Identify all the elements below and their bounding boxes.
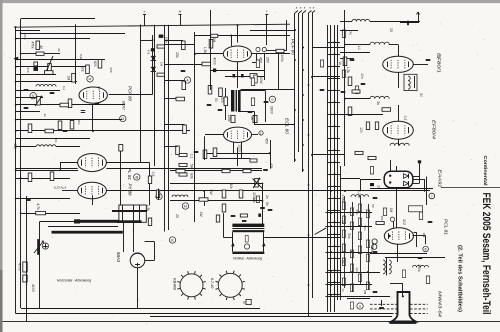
svg-text:5H: 5H	[190, 164, 194, 169]
svg-text:70: 70	[348, 31, 352, 35]
svg-text:0,25 ALA: 0,25 ALA	[54, 186, 67, 190]
svg-text:47k: 47k	[269, 163, 273, 169]
svg-text:100k: 100k	[371, 243, 375, 250]
svg-text:1n: 1n	[341, 288, 345, 292]
svg-text:PCF 80: PCF 80	[128, 86, 133, 101]
svg-text:50: 50	[214, 98, 218, 102]
svg-text:10n: 10n	[355, 267, 359, 272]
svg-text:EF80/4: EF80/4	[430, 120, 436, 139]
svg-text:30k: 30k	[229, 183, 233, 189]
svg-text:25V: 25V	[266, 57, 270, 64]
svg-text:5n: 5n	[265, 202, 269, 206]
svg-text:L1: L1	[357, 46, 361, 50]
svg-text:2n: 2n	[265, 195, 269, 199]
svg-text:4000: 4000	[213, 57, 217, 65]
svg-text:2n: 2n	[377, 185, 381, 189]
svg-text:1,5k: 1,5k	[203, 47, 207, 54]
svg-text:50n: 50n	[77, 119, 81, 124]
svg-text:Horizontal - Ablenkung: Horizontal - Ablenkung	[57, 279, 91, 283]
svg-text:1W: 1W	[199, 211, 203, 217]
svg-text:47k: 47k	[147, 50, 151, 55]
svg-text:100n: 100n	[23, 33, 27, 40]
svg-text:100: 100	[359, 127, 363, 133]
svg-text:ECL 80: ECL 80	[284, 118, 290, 134]
svg-text:Vertikal - Ablenkung: Vertikal - Ablenkung	[233, 256, 262, 260]
svg-text:8-7-40: 8-7-40	[210, 278, 214, 288]
svg-text:10n: 10n	[54, 137, 58, 142]
svg-text:25: 25	[389, 28, 393, 32]
svg-text:100k: 100k	[280, 54, 284, 62]
svg-text:9BA3: 9BA3	[116, 252, 121, 263]
svg-text:0,1: 0,1	[62, 86, 66, 91]
svg-text:4,7: 4,7	[97, 86, 101, 91]
svg-text:H: H	[184, 203, 187, 208]
svg-text:PCL 81: PCL 81	[442, 219, 448, 235]
svg-text:45V: 45V	[265, 138, 269, 145]
svg-text:B: B	[437, 54, 440, 59]
svg-text:PY 88: PY 88	[127, 184, 132, 196]
svg-text:280V: 280V	[270, 106, 274, 115]
svg-text:50n: 50n	[363, 225, 367, 230]
svg-text:1k: 1k	[43, 113, 47, 117]
svg-text:K: K	[171, 237, 174, 242]
svg-text:G: G	[243, 300, 246, 304]
svg-text:200k: 200k	[252, 192, 256, 200]
svg-text:U: U	[89, 76, 92, 81]
svg-text:1M: 1M	[160, 62, 164, 67]
svg-text:470k: 470k	[31, 41, 35, 49]
svg-text:D: D	[121, 116, 124, 121]
svg-text:PL 81: PL 81	[127, 168, 132, 180]
svg-text:B: B	[135, 174, 138, 179]
svg-text:(2. Teil des Schaltbildes): (2. Teil des Schaltbildes)	[456, 245, 462, 312]
svg-text:1M: 1M	[389, 208, 393, 213]
svg-text:MW43-64: MW43-64	[437, 291, 442, 318]
svg-text:300: 300	[220, 97, 224, 103]
svg-text:5,6k: 5,6k	[79, 54, 83, 60]
svg-text:25k: 25k	[175, 52, 179, 58]
svg-text:400V: 400V	[31, 284, 35, 293]
svg-text:82k: 82k	[190, 173, 194, 179]
svg-text:10n: 10n	[360, 73, 364, 79]
svg-text:1k: 1k	[250, 116, 254, 120]
svg-text:50: 50	[371, 204, 375, 208]
svg-text:290k: 290k	[417, 264, 421, 272]
svg-text:220: 220	[109, 67, 113, 72]
svg-text:125k: 125k	[227, 114, 231, 122]
svg-text:820: 820	[93, 61, 97, 67]
svg-text:4700: 4700	[18, 263, 22, 271]
svg-text:80V: 80V	[122, 101, 126, 111]
svg-text:1k: 1k	[338, 61, 342, 65]
svg-text:1,5k: 1,5k	[346, 67, 350, 74]
svg-text:KB489: KB489	[173, 278, 178, 291]
svg-text:10k: 10k	[81, 66, 85, 72]
svg-text:FEK 2005 Sesam, Fernseh-Teil: FEK 2005 Sesam, Fernseh-Teil	[480, 193, 492, 315]
svg-text:0,5: 0,5	[403, 116, 407, 121]
svg-text:302: 302	[402, 219, 406, 225]
svg-text:1,5k: 1,5k	[146, 205, 150, 212]
svg-text:470: 470	[26, 67, 30, 72]
svg-text:25: 25	[175, 214, 179, 218]
svg-text:EAA91: EAA91	[436, 170, 442, 188]
svg-text:0,1: 0,1	[190, 154, 194, 159]
svg-text:10W: 10W	[259, 77, 263, 85]
svg-text:30: 30	[419, 93, 423, 97]
svg-text:42: 42	[39, 45, 43, 49]
svg-text:V: V	[32, 93, 35, 98]
svg-text:2M: 2M	[363, 290, 367, 295]
svg-text:15k: 15k	[380, 216, 384, 221]
svg-text:25k: 25k	[355, 210, 359, 215]
svg-text:Continental: Continental	[482, 156, 488, 186]
svg-text:1M: 1M	[67, 76, 71, 81]
svg-text:5W: 5W	[209, 189, 213, 195]
svg-text:2k: 2k	[57, 48, 61, 52]
svg-text:100n: 100n	[238, 144, 242, 152]
svg-text:50k: 50k	[347, 233, 351, 239]
svg-text:2k: 2k	[376, 101, 380, 105]
svg-text:4,7k: 4,7k	[36, 203, 40, 210]
